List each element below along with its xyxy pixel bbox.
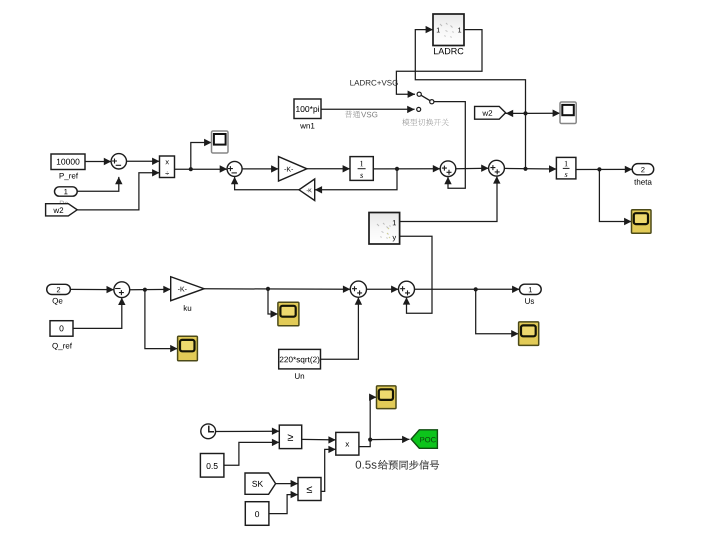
wire w2 From to Product divide input <box>77 173 159 210</box>
sum Sum6 (plus plus) <box>350 281 366 297</box>
wire node w2 up-left to LADRC input <box>415 30 525 169</box>
wire node w2 to Scope2 <box>526 112 561 114</box>
junction at Integrator2 output <box>597 167 601 171</box>
wire Sum1 to Product <box>126 160 159 162</box>
scope Y2 (yellow display block) <box>178 336 198 361</box>
wire Product to Sum2 <box>175 168 235 170</box>
constant 0 (bottom) <box>245 502 269 526</box>
wire const 0.5 to GreaterEq input2 <box>224 442 279 465</box>
scope Y3 (yellow display block) <box>278 302 299 326</box>
sum Sum4 (plus plus) <box>489 160 505 176</box>
wire Clock to GreaterEq input1 <box>216 430 280 432</box>
wire Product2 output up to Scope Y5 <box>359 397 377 446</box>
subsystem pre-sync (outputs 1 and y) <box>369 213 400 245</box>
relational operator greater-equal <box>279 425 301 449</box>
wire LessEq to Product2 input2 <box>321 449 336 491</box>
label LADRC+VSG <box>350 80 354 86</box>
wire node w2 to w2 Goto tag <box>506 112 526 114</box>
wire branch down to Scope Y2 <box>145 290 178 349</box>
clock block <box>201 424 216 439</box>
wire branch up to Scope1 <box>191 143 212 170</box>
scope Scope2 (white display block) <box>560 102 576 124</box>
junction at Gain ku output <box>266 287 270 291</box>
wire Sum3 to Sum4 <box>456 167 489 170</box>
product block x (bottom) <box>336 432 359 455</box>
wire GreaterEq to Product2 input1 <box>302 438 336 441</box>
relational operator less-equal <box>298 478 321 501</box>
outport 1 (Us) <box>520 284 542 294</box>
junction at Sum5 output <box>143 288 147 292</box>
junction node w2 upper <box>523 111 527 115</box>
wire branch down to Scope Y3 <box>268 289 278 314</box>
wire Un to Sum6 bottom <box>321 298 359 360</box>
label 普通VSG (ordinary VSG) <box>345 111 352 118</box>
junction at Product output <box>189 167 193 171</box>
wire Pe inport to Sum1 bottom <box>77 177 119 191</box>
From tag w2 (top left) <box>46 204 78 216</box>
scope Scope1 (white display block) <box>212 131 229 153</box>
scope Y5 (yellow display block) <box>377 386 397 409</box>
wire branch right to POC Goto <box>370 438 409 440</box>
junction node w2 on main line <box>523 167 527 171</box>
wire Q_ref to Sum5 bottom <box>73 298 122 328</box>
label 模型切换开关 (model switching switch) <box>402 119 409 126</box>
sum Sum3 (plus plus) <box>440 161 456 177</box>
gain J (-K-) left pointing feedback <box>299 179 315 201</box>
sum Sum7 (plus plus) <box>399 281 415 297</box>
wire Integrator2 to theta outport <box>576 168 632 170</box>
wire Integrator1 to Sum3 <box>373 168 440 170</box>
product block x divide <box>160 156 175 178</box>
wire feedback down-left to Gain J <box>315 169 397 190</box>
label 0.5s give pre-sync signal <box>356 461 361 469</box>
wire Sum2 to Gain D <box>242 168 278 170</box>
outport 2 (theta) <box>632 164 654 175</box>
wire LADRC output to Switch input1 <box>396 30 482 95</box>
inport 2 (Qe) <box>47 284 71 294</box>
integrator 1/s (second) <box>556 157 576 179</box>
inport 1 (Pe) <box>60 201 64 206</box>
sum Sum2 (plus minus) <box>227 161 242 176</box>
junction at Integrator1 output <box>395 167 399 171</box>
scope Y4 (yellow display block) <box>519 322 539 346</box>
subsystem LADRC <box>433 14 464 46</box>
constant 0.5 <box>200 454 224 478</box>
constant Q_ref value 0 <box>50 321 73 337</box>
From tag SK <box>245 473 276 494</box>
wire Subsystem port1 to Sum4 bottom <box>400 177 497 222</box>
wire P_ref to Sum1 <box>85 161 111 163</box>
sum Sum5 (minus plus) <box>114 282 130 298</box>
Goto tag w2 (top right) <box>475 106 506 119</box>
wire Qe to Sum5 <box>70 288 114 290</box>
constant Un value 220*sqrt(2) <box>279 349 321 369</box>
wire Sum6 to Sum7 <box>367 288 399 290</box>
sum Sum1 (plus minus) <box>111 154 126 169</box>
wire wn1 to Switch input2 <box>321 108 415 110</box>
wire branch down to Scope Y1 <box>599 169 631 221</box>
constant wn1 value 100*pi <box>294 99 321 119</box>
scope Y1 theta (yellow display block) <box>632 210 652 234</box>
wire Switch output down-left to Sum3 bottom <box>434 102 465 189</box>
gain ku (-K-) <box>171 277 204 301</box>
Goto tag POC (green) <box>411 430 437 449</box>
integrator 1/s (first) <box>350 157 373 181</box>
wire Sum7 to Us outport <box>415 288 520 290</box>
junction at Product2 output <box>368 438 372 442</box>
junction at Sum7 output <box>474 287 478 291</box>
gain D (-K-) <box>279 157 307 181</box>
constant P_ref value 10000 <box>51 154 85 170</box>
wire Sum5 to Gain ku <box>130 288 171 290</box>
manual switch <box>419 94 432 102</box>
wire Gain D to Integrator1 <box>307 168 350 170</box>
wire SK From to LessEq input1 <box>276 483 298 485</box>
wire Subsystem y to Sum7 bottom <box>400 236 432 313</box>
wire const 0 to LessEq input2 <box>269 495 298 514</box>
wire Gain J to Sum2 bottom <box>235 177 299 190</box>
wire Gain ku to Sum6 <box>204 288 350 290</box>
wire branch down to Scope Y4 <box>476 289 519 333</box>
wire Sum4 to Integrator2 <box>504 167 556 170</box>
